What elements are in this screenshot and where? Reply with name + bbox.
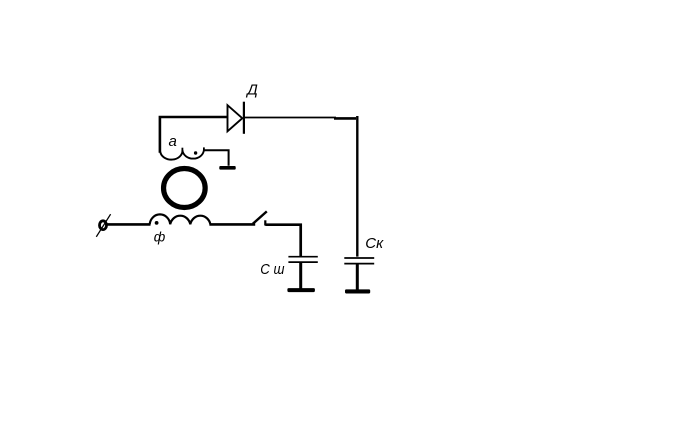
capacitor Ск bottom plate	[344, 263, 374, 265]
svg-text:a: a	[169, 133, 177, 150]
wire right vertical to Ск	[356, 116, 358, 257]
capacitor Сш top plate	[288, 256, 317, 258]
wire terminal to winding	[107, 223, 151, 226]
wire winding to switch	[209, 223, 255, 226]
wire switch to Csh corner	[265, 225, 300, 257]
svg-text:Ск: Ск	[365, 235, 384, 252]
inductor winding ф	[150, 214, 211, 224]
dot polarity ф	[155, 221, 159, 225]
terminal input (antenna probe)	[96, 214, 110, 237]
dot polarity a	[194, 151, 197, 154]
toroid core	[164, 169, 206, 208]
switch right contact tick	[264, 220, 266, 225]
wire top-left vertical and top horizontal	[160, 117, 228, 153]
capacitor Сш bottom plate	[288, 261, 317, 263]
winding a (secondary, two bumps)	[160, 150, 204, 159]
svg-text:С ш: С ш	[260, 261, 285, 278]
capacitor Сш lower lead	[299, 263, 302, 290]
wire diode to right corner	[244, 117, 336, 119]
ground bar Ск	[345, 289, 370, 293]
capacitor Ск lower lead	[356, 264, 359, 290]
capacitor Ск top plate	[344, 257, 374, 259]
svg-text:Д: Д	[245, 81, 258, 98]
ground bar (winding a)	[219, 166, 235, 170]
svg-text:ф: ф	[154, 230, 166, 245]
switch blade	[253, 211, 267, 223]
diode Д triangle	[228, 105, 243, 131]
wire winding a to ground	[204, 150, 229, 166]
ground bar Сш	[287, 288, 315, 292]
diode Д cathode bar	[243, 102, 245, 134]
